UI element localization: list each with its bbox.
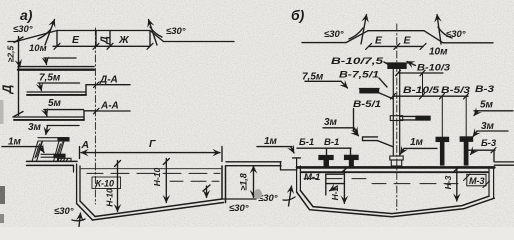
svg-text:Д: Д <box>0 84 14 94</box>
svg-text:5м: 5м <box>480 100 494 111</box>
svg-text:≤30°: ≤30° <box>446 29 466 40</box>
svg-text:Е: Е <box>404 35 412 47</box>
svg-text:В-7,5/1: В-7,5/1 <box>339 70 379 81</box>
svg-text:10м: 10м <box>29 43 47 54</box>
svg-text:Н-3: Н-3 <box>443 175 453 189</box>
svg-text:М-1: М-1 <box>304 172 320 183</box>
svg-text:1м: 1м <box>8 137 22 148</box>
svg-text:К-10: К-10 <box>96 179 115 189</box>
svg-text:≥1,8: ≥1,8 <box>239 173 249 190</box>
svg-text:Ж: Ж <box>118 34 130 46</box>
svg-text:≤30°: ≤30° <box>13 24 33 35</box>
svg-text:а): а) <box>20 7 33 23</box>
svg-text:Д-А: Д-А <box>99 75 118 86</box>
svg-text:10м: 10м <box>429 47 448 58</box>
svg-text:3м: 3м <box>28 122 42 133</box>
svg-text:7,5м: 7,5м <box>39 73 61 84</box>
svg-text:В-5/1: В-5/1 <box>353 99 381 110</box>
svg-text:В-10/3: В-10/3 <box>417 63 451 74</box>
svg-text:≤30°: ≤30° <box>166 26 186 37</box>
svg-text:А-А: А-А <box>100 101 119 112</box>
svg-text:Н-10: Н-10 <box>105 188 115 207</box>
svg-text:5м: 5м <box>48 98 62 109</box>
svg-text:В-10/5: В-10/5 <box>403 85 440 96</box>
svg-text:≥2,5: ≥2,5 <box>6 45 16 62</box>
svg-text:Н-1: Н-1 <box>330 186 340 200</box>
svg-text:3м: 3м <box>324 117 338 128</box>
svg-text:Д: Д <box>99 36 111 45</box>
svg-text:Е: Е <box>375 35 383 47</box>
svg-text:≤30°: ≤30° <box>54 206 74 217</box>
svg-text:В-1: В-1 <box>324 137 339 148</box>
svg-text:Б-1: Б-1 <box>299 137 314 148</box>
svg-text:В-3: В-3 <box>475 84 495 95</box>
svg-text:≤30°: ≤30° <box>229 203 249 214</box>
svg-text:б): б) <box>291 7 305 23</box>
svg-text:1м: 1м <box>410 137 424 148</box>
svg-text:Б-3: Б-3 <box>481 138 497 149</box>
svg-text:≤30°: ≤30° <box>324 29 344 40</box>
svg-text:А: А <box>81 139 90 151</box>
svg-text:Е: Е <box>72 34 80 46</box>
svg-text:В-5/3: В-5/3 <box>441 85 471 96</box>
svg-text:М-3: М-3 <box>469 176 485 186</box>
svg-text:1м: 1м <box>264 136 278 147</box>
svg-text:Г: Г <box>149 138 156 150</box>
svg-text:В-10/7,5: В-10/7,5 <box>331 56 384 67</box>
svg-text:Н-10: Н-10 <box>152 168 162 187</box>
